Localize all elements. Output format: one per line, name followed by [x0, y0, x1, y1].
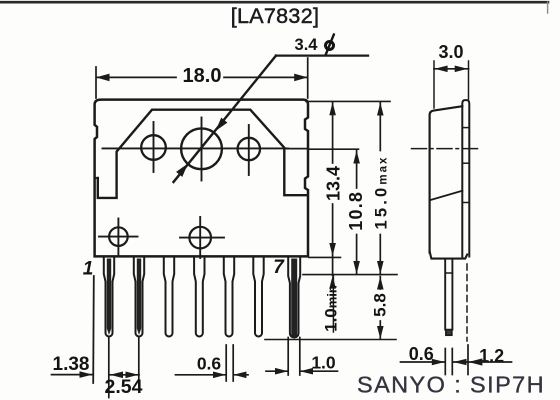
svg-text:10.8: 10.8	[346, 191, 366, 231]
svg-text:0.6: 0.6	[197, 354, 222, 374]
svg-text:18.0: 18.0	[183, 65, 222, 87]
svg-text:1.2: 1.2	[479, 346, 504, 366]
svg-text:5.8: 5.8	[370, 293, 389, 317]
dim 1.0 line	[266, 370, 288, 372]
side view tab strip	[462, 100, 469, 256]
dim 1.38 line	[52, 374, 93, 376]
side view tab ticks	[462, 127, 469, 129]
tab inner outline (chamfered heatsink)	[98, 110, 307, 198]
pin 3	[164, 258, 174, 337]
pin 7 dark core	[291, 259, 297, 338]
svg-text:[LA7832]: [LA7832]	[231, 4, 319, 28]
svg-text:7: 7	[273, 257, 285, 278]
leader arrowhead lower	[176, 164, 188, 177]
pin 7	[288, 258, 300, 338]
side dims line	[401, 361, 445, 363]
right ext line seating (y=274.6)	[303, 274, 397, 276]
tab left top tick	[95, 177, 98, 179]
dim 2.54 line	[109, 374, 139, 376]
dim 5.8 line	[379, 277, 381, 290]
pin 1 dark core	[107, 259, 111, 336]
pin 6	[253, 258, 263, 337]
dim 1.0 ext lines	[287, 338, 289, 376]
pin 1	[104, 258, 114, 337]
svg-text:3.0: 3.0	[438, 42, 463, 62]
svg-text:1.0min: 1.0min	[322, 285, 341, 332]
tab right horizontal to edge	[284, 148, 308, 150]
top border line	[0, 1, 548, 4]
pin 2 dark core	[137, 259, 141, 336]
svg-text:1: 1	[83, 259, 94, 280]
svg-text:15.0max: 15.0max	[373, 156, 391, 230]
side view dim 3.0 ext lines	[433, 61, 435, 108]
hole H2 (big center)	[181, 128, 222, 169]
side dims ext lines	[444, 349, 446, 375]
svg-text:13.4: 13.4	[324, 166, 344, 201]
hole H4 crosshair	[117, 219, 119, 255]
hole H5 (bottom-center small)	[189, 227, 211, 249]
hole H1 crosshair	[153, 122, 155, 172]
dim 13.4 line	[332, 102, 334, 163]
side view dim 3.0 line	[434, 68, 469, 70]
svg-text:1.38: 1.38	[53, 354, 90, 375]
dim 0.6 (front) ext lines	[225, 345, 227, 381]
svg-text:1.0: 1.0	[311, 353, 336, 373]
hole H5 crosshair	[199, 217, 201, 258]
side view dashed ext line	[466, 264, 468, 341]
top border right stub	[547, 2, 549, 13]
front view package outer outline	[95, 100, 308, 257]
phi symbol	[326, 35, 334, 55]
dim 18.0 arrows	[96, 74, 110, 82]
side view mold slant line	[430, 191, 463, 200]
dim 2.54 ext lines	[108, 338, 110, 398]
leader underline	[276, 54, 368, 56]
pin 4	[194, 258, 204, 337]
dim 18.0 extension lines	[95, 67, 97, 98]
pin 2	[134, 258, 144, 337]
dim 18.0 line	[97, 76, 177, 78]
dim 0.6 (front) line	[176, 374, 227, 376]
side view pin collar tick	[445, 272, 452, 274]
dim 10.8 line	[356, 151, 358, 189]
hole H2 crosshair	[201, 118, 203, 181]
svg-text:2.54: 2.54	[105, 376, 143, 398]
svg-text:3.4: 3.4	[295, 36, 319, 54]
side view body	[430, 106, 463, 252]
hole H1 (top-left)	[141, 135, 166, 160]
side dims arrows	[432, 359, 445, 366]
svg-text:SANYO : SIP7H: SANYO : SIP7H	[357, 372, 545, 398]
side view pin	[445, 259, 452, 330]
dim 1.38 ext line	[92, 276, 95, 383]
right ext line pin-end (y=339.5)	[265, 339, 396, 341]
side view bottom edge	[430, 252, 468, 259]
svg-text:0.6: 0.6	[409, 344, 434, 364]
hole H3 crosshair	[248, 125, 250, 175]
right ext line 13.4 bottom (y=257.4)	[309, 256, 341, 258]
leader diagonal	[174, 56, 277, 182]
right ext line 10.8 (y=149.2)	[308, 148, 359, 150]
pin 5	[224, 258, 234, 337]
hole H4 (bottom-left small)	[109, 227, 128, 246]
dim 1.0min line	[332, 257, 334, 275]
right ext line top (y=101.4)	[306, 100, 390, 102]
dim 15.0max line	[379, 103, 381, 151]
side view pin tip box	[446, 330, 452, 336]
side view centerline dash-dot	[412, 148, 479, 150]
hole H3 (top-right)	[238, 138, 260, 160]
leader arrowhead upper	[216, 118, 228, 131]
